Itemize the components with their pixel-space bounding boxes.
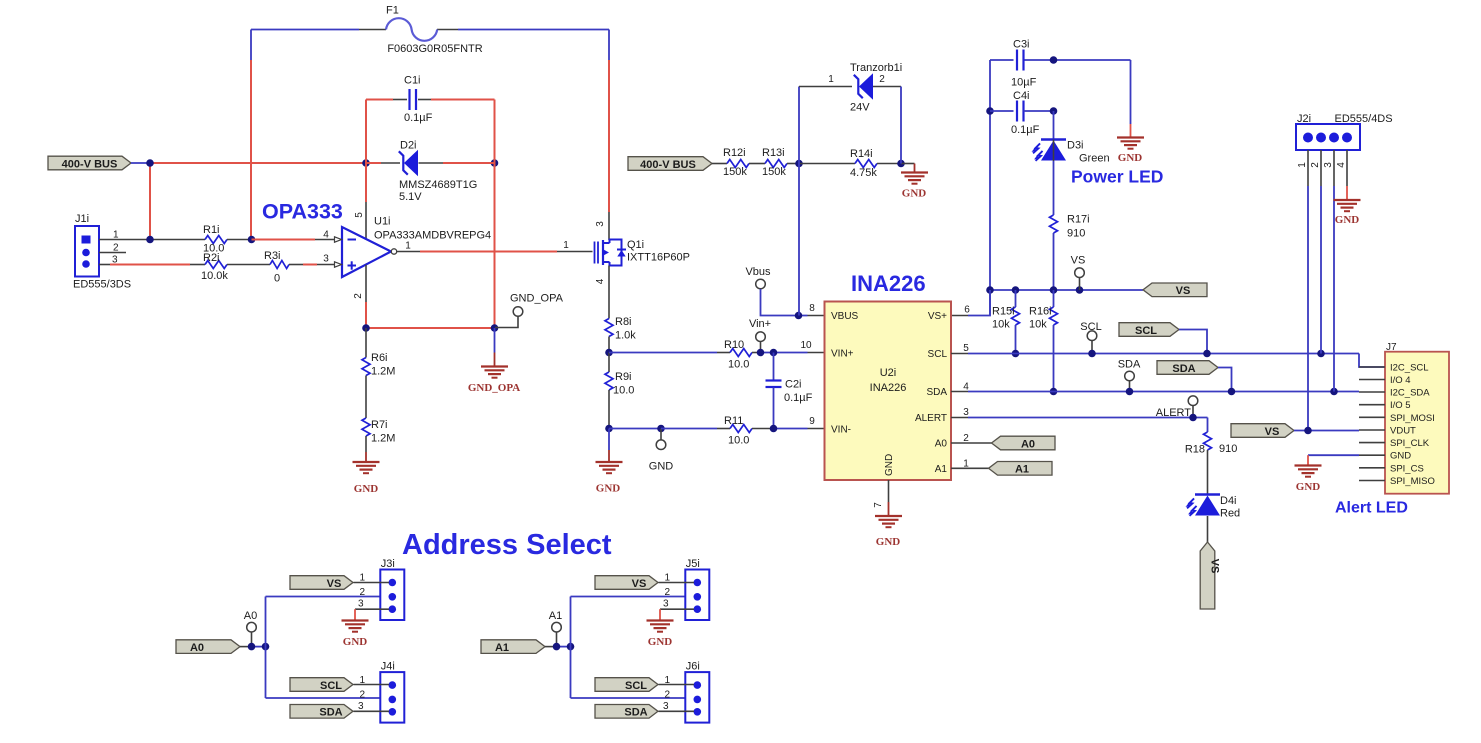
node A1 terminal bbox=[549, 610, 562, 647]
node ALERT terminal bbox=[1156, 396, 1198, 419]
svg-text:R2i: R2i bbox=[203, 252, 220, 264]
pin VIN+ label bbox=[831, 349, 854, 360]
net tag VS rail bbox=[1143, 283, 1207, 297]
node junction C2i top bbox=[770, 349, 778, 357]
pin 3 label J5i bbox=[663, 599, 669, 610]
svg-text:GND: GND bbox=[596, 483, 621, 495]
svg-text:R7i: R7i bbox=[371, 419, 388, 431]
svg-text:R12i: R12i bbox=[723, 147, 746, 159]
pin ALERT label bbox=[915, 413, 947, 424]
ground below R9i bbox=[596, 462, 623, 495]
pin 2 label bbox=[963, 433, 969, 444]
wire tag to R12i bbox=[712, 163, 727, 165]
label Power LED bbox=[1071, 167, 1163, 187]
wire R1i to node bbox=[227, 239, 252, 241]
wire bus drop to J1i pin1 row bbox=[149, 163, 151, 240]
wire node to R14i bbox=[799, 163, 855, 165]
wire branch to lower header pin2 bbox=[266, 697, 390, 699]
svg-text:SPI_MOSI: SPI_MOSI bbox=[1390, 413, 1435, 424]
node junction SCL J2i pin2 bbox=[1317, 350, 1325, 358]
pin VIN- label bbox=[831, 425, 851, 436]
svg-text:2: 2 bbox=[360, 587, 366, 598]
svg-text:D2i: D2i bbox=[400, 140, 417, 152]
svg-text:VIN-: VIN- bbox=[831, 425, 851, 436]
capacitor C2i bbox=[766, 353, 813, 429]
node junction C2i bottom bbox=[770, 425, 778, 433]
pin 2 label J1i bbox=[113, 243, 119, 254]
node junction Vin+/row bbox=[757, 349, 765, 357]
svg-text:VS: VS bbox=[632, 578, 647, 590]
wire Vbus to VBUS pin bbox=[761, 289, 825, 316]
svg-text:VS: VS bbox=[1209, 559, 1221, 574]
svg-text:3: 3 bbox=[963, 407, 969, 418]
net tag 400-V BUS right bbox=[628, 157, 712, 171]
svg-text:400-V BUS: 400-V BUS bbox=[62, 158, 118, 170]
svg-text:R6i: R6i bbox=[371, 352, 388, 364]
wire tag to nodes bbox=[240, 646, 266, 648]
pin 2 label J4i bbox=[360, 690, 366, 701]
svg-text:3: 3 bbox=[358, 599, 364, 610]
capacitor C4i bbox=[1011, 90, 1040, 136]
svg-text:INA226: INA226 bbox=[870, 382, 907, 394]
wire J1i pin2 stub bbox=[99, 252, 126, 254]
svg-text:A1: A1 bbox=[549, 610, 562, 622]
svg-text:7: 7 bbox=[873, 502, 884, 508]
svg-text:I2C_SCL: I2C_SCL bbox=[1390, 363, 1429, 374]
svg-text:GND: GND bbox=[648, 636, 673, 648]
node junction R16i/SDA bbox=[1050, 388, 1058, 396]
pin A0 label bbox=[935, 439, 948, 450]
svg-text:A0: A0 bbox=[244, 610, 257, 622]
svg-text:3: 3 bbox=[323, 254, 329, 265]
svg-text:VBUS: VBUS bbox=[831, 311, 859, 322]
svg-text:R17i: R17i bbox=[1067, 214, 1090, 226]
wire 400-V bus to op-amp box bbox=[131, 162, 366, 164]
svg-text:R8i: R8i bbox=[615, 316, 632, 328]
wire node to R10 bbox=[609, 352, 730, 354]
node junction bus/C1 left vertical bbox=[362, 159, 370, 167]
pin 3 label J1i bbox=[112, 255, 118, 266]
svg-text:MMSZ4689T1G: MMSZ4689T1G bbox=[399, 179, 477, 191]
LED D3i bbox=[1032, 140, 1110, 165]
svg-text:1: 1 bbox=[1297, 162, 1308, 168]
wire VS tag to J7 VDUT bbox=[1294, 430, 1359, 432]
svg-text:GND: GND bbox=[1390, 451, 1411, 462]
wire Q1i source down bbox=[608, 266, 610, 319]
pin VS+ label bbox=[928, 311, 947, 322]
svg-text:VS: VS bbox=[327, 578, 342, 590]
node GND terminal bbox=[649, 429, 674, 473]
ground INA226 bbox=[875, 516, 902, 548]
resistor R11 bbox=[724, 415, 752, 447]
svg-text:0: 0 bbox=[274, 273, 280, 285]
ground top right bbox=[1117, 138, 1144, 165]
wire R7i to ground bbox=[365, 436, 367, 462]
ground J2i pin4 bbox=[1334, 200, 1361, 226]
pin 3 label Q1i bbox=[595, 221, 606, 227]
node junction C4i right bbox=[1050, 107, 1058, 115]
svg-text:R15i: R15i bbox=[992, 306, 1015, 318]
svg-text:OPA333: OPA333 bbox=[262, 200, 343, 224]
svg-text:ALERT: ALERT bbox=[1156, 407, 1192, 419]
svg-text:R13i: R13i bbox=[762, 147, 785, 159]
svg-text:R16i: R16i bbox=[1029, 306, 1052, 318]
pin SDA label bbox=[926, 387, 947, 398]
svg-text:10.0k: 10.0k bbox=[201, 270, 228, 282]
pin A1 label bbox=[935, 464, 948, 475]
svg-text:A0: A0 bbox=[935, 439, 948, 450]
pin 3 label J3i bbox=[358, 599, 364, 610]
wire R13i to node bbox=[787, 163, 799, 165]
node junction op-amp pin2/R6i bbox=[362, 324, 370, 332]
svg-text:GND: GND bbox=[1296, 481, 1321, 493]
wire SCL tag to J4i pin1 bbox=[354, 684, 390, 686]
node junction R14i/Tranzorb right bbox=[897, 160, 905, 168]
svg-text:5: 5 bbox=[354, 212, 365, 218]
pin 1 label J3i bbox=[360, 573, 366, 584]
node junction R1i/F1 vertical bbox=[248, 236, 256, 244]
wire node to ground bbox=[901, 164, 915, 173]
pin 3 label J2i bbox=[1323, 162, 1334, 168]
svg-text:4: 4 bbox=[1336, 162, 1347, 168]
svg-text:3: 3 bbox=[595, 221, 606, 227]
svg-text:R1i: R1i bbox=[203, 224, 220, 236]
wire to ground below R9i bbox=[608, 429, 610, 463]
wire R12i to R13i bbox=[749, 163, 765, 165]
svg-text:IXTT16P60P: IXTT16P60P bbox=[627, 252, 690, 264]
pin 7 label bbox=[873, 502, 884, 508]
wire to ground J7 bbox=[1307, 455, 1309, 465]
svg-text:2: 2 bbox=[360, 690, 366, 701]
pin 2 label J5i bbox=[665, 587, 671, 598]
pin 5 label op-amp bbox=[354, 212, 365, 218]
pin 3 label J4i bbox=[358, 701, 364, 712]
wire Tranzorb right vertical bbox=[900, 87, 902, 164]
node junction divider/Tranzorb left bbox=[795, 160, 803, 168]
pin 2 label J2i bbox=[1310, 162, 1321, 168]
svg-text:2: 2 bbox=[353, 293, 364, 299]
svg-text:10: 10 bbox=[800, 340, 812, 351]
node SCL terminal bbox=[1080, 321, 1101, 354]
label Address Select bbox=[402, 529, 612, 561]
wire D3i to R17i bbox=[1053, 161, 1055, 215]
wire ALERT elbow to R18 bbox=[1207, 418, 1209, 433]
resistor R6i bbox=[362, 352, 395, 378]
svg-text:6: 6 bbox=[964, 305, 970, 316]
node junction VDUT J2i pin1 bbox=[1304, 427, 1312, 435]
fuse F1 bbox=[386, 5, 483, 56]
node junction R8i/R9i/VIN+ row bbox=[605, 349, 613, 357]
wire C4i row left bbox=[990, 110, 1014, 112]
svg-text:Vin+: Vin+ bbox=[749, 318, 771, 330]
wire F1 left vertical bbox=[250, 30, 252, 240]
resistor R18 bbox=[1185, 432, 1238, 456]
svg-text:SCL: SCL bbox=[1135, 325, 1157, 337]
svg-text:8: 8 bbox=[809, 303, 815, 314]
svg-text:10k: 10k bbox=[1029, 319, 1047, 331]
wire R17i to VS rail bbox=[1053, 233, 1055, 290]
net tag A0 bbox=[992, 436, 1056, 450]
resistor R2i bbox=[201, 252, 228, 282]
wire F1 right vertical bbox=[608, 30, 610, 241]
svg-text:GND: GND bbox=[343, 636, 368, 648]
svg-text:I/O 4: I/O 4 bbox=[1390, 375, 1411, 386]
wire J1i pin3 to R2i bbox=[99, 264, 205, 266]
node junction rail/right vertical bbox=[491, 324, 499, 332]
wire ALERT line bbox=[951, 417, 1208, 419]
ground J7 bbox=[1295, 466, 1322, 494]
svg-text:J5i: J5i bbox=[686, 558, 700, 570]
op-amp U1i OPA333 bbox=[342, 216, 491, 278]
pin 1 label J6i bbox=[665, 675, 671, 686]
svg-text:GND: GND bbox=[354, 483, 379, 495]
connector J2i bbox=[1296, 113, 1393, 150]
wire SDA line bbox=[951, 391, 1359, 393]
svg-text:A1: A1 bbox=[935, 464, 948, 475]
wire SCL tag elbow bbox=[1179, 330, 1207, 354]
capacitor C3i bbox=[1011, 39, 1037, 89]
pin 2 label J6i bbox=[665, 690, 671, 701]
svg-text:A0: A0 bbox=[1021, 438, 1035, 450]
wire to R11 bbox=[661, 428, 730, 430]
wire J2i pin2 to SCL bbox=[1320, 150, 1322, 354]
svg-text:2: 2 bbox=[1310, 162, 1321, 168]
svg-text:R18: R18 bbox=[1185, 444, 1205, 456]
svg-text:I/O 5: I/O 5 bbox=[1390, 400, 1411, 411]
label OPA333 bbox=[262, 200, 343, 224]
pin SCL label bbox=[928, 349, 948, 360]
wire VS+ pin elbow bbox=[951, 290, 990, 316]
svg-text:A0: A0 bbox=[190, 642, 204, 654]
svg-text:GND: GND bbox=[876, 536, 901, 548]
wire J3i pin3 to ground bbox=[355, 609, 389, 620]
wire R14i to node bbox=[877, 163, 901, 165]
wire J7 GND row bbox=[1308, 454, 1359, 456]
svg-text:1: 1 bbox=[828, 74, 834, 85]
wire R9i to node bbox=[608, 390, 610, 429]
svg-text:1.0k: 1.0k bbox=[615, 330, 636, 342]
wire R3i to op-amp pin3 bbox=[289, 264, 335, 266]
wire SCL tag to J6i pin1 bbox=[659, 684, 695, 686]
svg-text:ED555/3DS: ED555/3DS bbox=[73, 279, 131, 291]
node junction GND stub bbox=[657, 425, 665, 433]
svg-text:Q1i: Q1i bbox=[627, 239, 644, 251]
net tag SDA at J4i bbox=[290, 705, 353, 719]
wire R6i to R7i bbox=[365, 376, 367, 419]
wire R2i to R3i bbox=[227, 264, 270, 266]
IC U2i INA226 bbox=[825, 302, 952, 481]
svg-text:1.2M: 1.2M bbox=[371, 433, 395, 445]
svg-text:150k: 150k bbox=[762, 166, 786, 178]
wire C4i row right bbox=[1024, 110, 1054, 112]
svg-text:I2C_SDA: I2C_SDA bbox=[1390, 388, 1430, 399]
svg-text:4.75k: 4.75k bbox=[850, 167, 877, 179]
svg-text:GND: GND bbox=[1335, 214, 1360, 226]
node junction R9i/VIN- row bbox=[605, 425, 613, 433]
capacitor C1i bbox=[404, 75, 433, 125]
svg-text:1: 1 bbox=[405, 241, 411, 252]
svg-text:24V: 24V bbox=[850, 102, 870, 114]
label INA226 bbox=[851, 271, 926, 296]
pin 1 label J2i bbox=[1297, 162, 1308, 168]
svg-text:9: 9 bbox=[809, 416, 815, 427]
svg-text:F0603G0R05FNTR: F0603G0R05FNTR bbox=[387, 43, 482, 55]
svg-text:Red: Red bbox=[1220, 508, 1240, 520]
pin stub J7 I2C_SCL bbox=[1359, 366, 1385, 368]
pin 9 label bbox=[809, 416, 815, 427]
svg-text:SPI_CS: SPI_CS bbox=[1390, 463, 1424, 474]
node junction R15i/SCL bbox=[1012, 350, 1020, 358]
pin VBUS label bbox=[831, 311, 859, 322]
wire box left vertical pin5 bbox=[365, 100, 367, 239]
svg-text:SCL: SCL bbox=[320, 680, 342, 692]
svg-text:GND: GND bbox=[884, 454, 895, 476]
svg-text:910: 910 bbox=[1219, 443, 1237, 455]
svg-text:400-V BUS: 400-V BUS bbox=[640, 159, 696, 171]
node VS terminal bbox=[1071, 255, 1086, 291]
svg-text:VS: VS bbox=[1176, 285, 1191, 297]
net tag A1 bbox=[989, 462, 1053, 476]
node junction C3i right/top rail bbox=[1050, 56, 1058, 64]
resistor R17i bbox=[1050, 214, 1090, 240]
resistor R1i bbox=[203, 224, 227, 255]
resistor R14i bbox=[850, 148, 877, 179]
pin 3 arrow op-amp bbox=[323, 254, 341, 268]
wire J1i pin1 to R1i bbox=[99, 239, 205, 241]
wire F1 top horizontal bbox=[251, 29, 609, 31]
node junction bus/C1 right vertical bbox=[491, 159, 499, 167]
wire R8i to node bbox=[608, 337, 610, 353]
wire SDA tag to J6i pin3 bbox=[659, 710, 695, 712]
wire branch to upper header pin2 bbox=[571, 596, 695, 598]
node junction A0 terminal bbox=[248, 643, 256, 651]
svg-text:ALERT: ALERT bbox=[915, 413, 947, 424]
pin stub J7 GND bbox=[1359, 454, 1385, 456]
svg-text:1: 1 bbox=[563, 240, 569, 251]
node junction A1 terminal bbox=[553, 643, 561, 651]
resistor R16i bbox=[1029, 290, 1058, 331]
wire top rail to ground bbox=[1130, 60, 1132, 138]
node junction Vbus/Tranzorb vertical bbox=[795, 312, 803, 320]
ground at R14i bbox=[901, 173, 928, 200]
wire branch vertical bbox=[265, 597, 267, 699]
node junction VS terminal bbox=[1076, 286, 1084, 294]
svg-text:R9i: R9i bbox=[615, 371, 632, 383]
wire VS tag to J5i pin1 bbox=[659, 582, 695, 584]
svg-text:2: 2 bbox=[879, 74, 885, 85]
wire GND_OPA rail bbox=[366, 327, 495, 329]
svg-text:3: 3 bbox=[663, 599, 669, 610]
wire Tranzorb top right bbox=[873, 86, 901, 88]
net tag A1 bbox=[481, 640, 545, 654]
svg-text:VS+: VS+ bbox=[928, 311, 947, 322]
wire SDA tag elbow bbox=[1218, 368, 1232, 392]
resistor R13i bbox=[762, 147, 787, 178]
svg-text:U1i: U1i bbox=[374, 216, 391, 228]
connector J3i bbox=[380, 558, 404, 620]
net tag SCL bbox=[1119, 323, 1179, 337]
net tag VS at J5i bbox=[595, 576, 658, 590]
net tag 400-V BUS left bbox=[48, 156, 131, 170]
svg-text:C3i: C3i bbox=[1013, 39, 1030, 51]
net tag SDA bbox=[1157, 361, 1218, 375]
diode D2i zener bbox=[366, 140, 495, 204]
svg-text:GND_OPA: GND_OPA bbox=[510, 293, 564, 305]
svg-text:SPI_CLK: SPI_CLK bbox=[1390, 438, 1430, 449]
resistor R8i bbox=[605, 316, 636, 342]
net tag VS below D4i bbox=[1200, 542, 1221, 609]
svg-text:R10: R10 bbox=[724, 339, 744, 351]
wire C4i to D3i bbox=[1053, 111, 1055, 139]
svg-text:GND: GND bbox=[902, 188, 927, 200]
node junction ALERT bbox=[1189, 414, 1197, 422]
ground GND_OPA bbox=[468, 367, 520, 395]
svg-text:0.1µF: 0.1µF bbox=[784, 392, 813, 404]
wire op-amp output to Q1i gate bbox=[397, 240, 593, 252]
svg-text:GND: GND bbox=[649, 461, 674, 473]
wire J2i pin4 to ground bbox=[1346, 150, 1348, 200]
wire Tranzorb left vertical bbox=[798, 87, 800, 164]
pin 1 label J4i bbox=[360, 675, 366, 686]
wire INA226 GND pin bbox=[888, 480, 890, 516]
wire node to GND terminal bbox=[609, 428, 661, 430]
wire J5i pin3 to ground bbox=[660, 609, 694, 620]
svg-text:Tranzorb1i: Tranzorb1i bbox=[850, 62, 902, 74]
svg-text:C2i: C2i bbox=[785, 379, 802, 391]
node junction bus/tag bbox=[146, 159, 154, 167]
op-amp output node bbox=[391, 241, 411, 255]
wire R15i to SCL line bbox=[1015, 325, 1017, 354]
pin 4 label J2i bbox=[1336, 162, 1347, 168]
svg-text:J1i: J1i bbox=[75, 213, 89, 225]
pin stub J7 SPI_MISO bbox=[1359, 480, 1385, 482]
wire A1 pin stub bbox=[951, 467, 989, 469]
pin stub J7 VDUT bbox=[1359, 429, 1385, 431]
svg-text:SDA: SDA bbox=[926, 387, 947, 398]
node junction SDA J2i pin3 bbox=[1330, 388, 1338, 396]
svg-text:F1: F1 bbox=[386, 5, 399, 17]
svg-text:A1: A1 bbox=[495, 642, 509, 654]
resistor R15i bbox=[992, 290, 1020, 331]
wire left bypass vertical bbox=[989, 60, 991, 316]
connector J4i bbox=[380, 661, 404, 723]
svg-text:A1: A1 bbox=[1015, 464, 1029, 476]
svg-text:SPI_MISO: SPI_MISO bbox=[1390, 476, 1435, 487]
pin stub J7 I/O 4 bbox=[1359, 379, 1385, 381]
pin 1 label J5i bbox=[665, 573, 671, 584]
svg-text:10k: 10k bbox=[992, 319, 1010, 331]
pin stub J7 SPI_MOSI bbox=[1359, 416, 1385, 418]
node junction A1 branch bbox=[567, 643, 575, 651]
wire SDA tag to J4i pin3 bbox=[354, 710, 390, 712]
pin 2 label op-amp bbox=[353, 293, 364, 299]
connector J6i bbox=[685, 661, 709, 723]
pin 1 label J1i bbox=[113, 230, 119, 241]
svg-text:Vbus: Vbus bbox=[745, 266, 771, 278]
wire VS tag to J3i pin1 bbox=[354, 582, 390, 584]
svg-text:0.1µF: 0.1µF bbox=[1011, 124, 1040, 136]
node A0 terminal bbox=[244, 610, 257, 647]
pin stub J7 I2C_SDA bbox=[1359, 391, 1385, 393]
wire rail to R6i bbox=[365, 328, 367, 358]
svg-text:J3i: J3i bbox=[381, 558, 395, 570]
node junction C4i left bbox=[986, 107, 994, 115]
LED D4i bbox=[1186, 495, 1241, 520]
wire R18 to D4i bbox=[1207, 450, 1209, 494]
pin stub J7 SPI_CS bbox=[1359, 467, 1385, 469]
svg-text:R11: R11 bbox=[724, 415, 743, 427]
svg-text:R3i: R3i bbox=[264, 250, 281, 262]
